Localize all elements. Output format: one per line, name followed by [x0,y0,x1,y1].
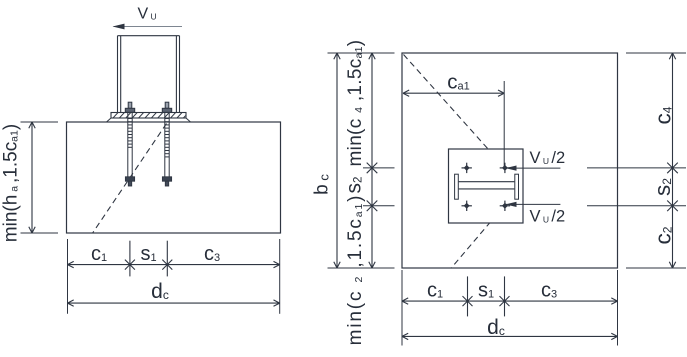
svg-text:b c​: b c​ [312,174,333,195]
svg-text:c3​: c3​ [541,280,557,302]
svg-text:s1​: s1​ [140,243,156,265]
svg-text:s2​: s2​ [650,178,675,196]
svg-text:c4​: c4​ [651,106,676,124]
svg-text:s2​: s2​ [343,177,366,194]
svg-text:c1​: c1​ [427,280,443,302]
svg-text:min(c 4​ ,1.5ca1​): min(c 4​ ,1.5ca1​) [345,40,366,167]
svg-text:c1​: c1​ [91,243,107,265]
svg-text:ca1​: ca1​ [447,71,470,94]
svg-text:c2​: c2​ [651,226,676,244]
svg-text:V ​U​ ​/2: V ​U​ ​/2 [530,149,566,167]
svg-text:s1​: s1​ [478,280,494,302]
svg-text:dc​: dc​ [487,316,505,339]
svg-text:dc​: dc​ [151,280,169,303]
svg-text:c3​: c3​ [204,243,220,265]
svg-text:min(h a ​,1.5ca1​): min(h a ​,1.5ca1​) [1,124,22,242]
svg-text:min(c 2​ ,1.5ca1​): min(c 2​ ,1.5ca1​) [345,194,366,346]
svg-text:V ​U​: V ​U​ [138,6,157,23]
svg-text:V ​U​ ​/2: V ​U​ ​/2 [530,208,566,226]
